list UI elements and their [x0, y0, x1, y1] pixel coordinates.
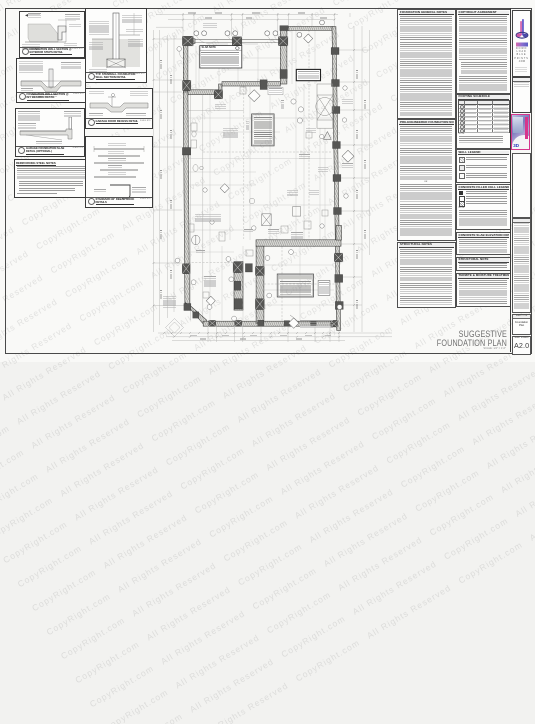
wall: interior stub [336, 226, 342, 241]
strip box: fine print [512, 218, 532, 313]
box: STRUCTURAL NOTE [456, 257, 511, 272]
fixtures along walls [189, 87, 328, 298]
note box NB1 [200, 46, 242, 68]
keynote circles [175, 47, 348, 321]
plan text blocks [201, 52, 239, 67]
box: WALL LEGEND [456, 149, 511, 183]
detail box D7: STANDARD 90 REBAR HOOK DETAILS [85, 136, 153, 208]
stair / fan feature right side [316, 84, 334, 128]
wall: top-left corner stub [183, 39, 195, 44]
wall: hall top (x222-280) [222, 82, 280, 86]
leader arrow T3 [290, 315, 299, 323]
detail box D2: TYP. STEMWALL FOUNDATION WALL SECTION DETAIL [85, 8, 147, 83]
box: COPYRIGHT AGREEMENT [456, 9, 511, 94]
white hatch X over large pads [182, 36, 343, 327]
box: PRE-ENGINEERED FOUNDATION NOTES [397, 119, 456, 241]
right dims [353, 26, 355, 332]
label box LB1 [296, 69, 320, 80]
title block strip [510, 8, 511, 352]
wall: diagonal bottom-left [185, 303, 207, 324]
interior faint dim chains [188, 30, 334, 320]
title area: SUGGESTIVE FOUNDATION PLAN [364, 330, 507, 347]
box: CONCRETE SLAB ELEVATION NOTES [456, 232, 511, 255]
strip box: sheet number [512, 336, 532, 355]
grid bubbles top [194, 20, 324, 37]
left dims [153, 30, 155, 332]
detail box D3: FOUNDATION WALL SECTION @ INT. BEARING DETAIL [16, 58, 86, 104]
wall: garage bottom [188, 90, 222, 95]
sheet border [5, 8, 533, 354]
wall: interior vertical O [234, 262, 243, 311]
label box LB2 [318, 281, 330, 296]
detail box D5: REINFORCING STEEL NOTES [14, 159, 89, 198]
note box NB3 [277, 274, 313, 297]
box: FOOTING SCHEDULE [456, 94, 511, 150]
strip box: revisions [512, 77, 532, 113]
strip box: color stamp [511, 114, 530, 151]
interior thin/dashed lines [188, 30, 336, 321]
detail box D6: GARAGE DOOR RECESS DETAIL [85, 88, 153, 129]
wall: interior garage top [256, 240, 341, 246]
box: TERMITE & MOISTURE TREATMENT [456, 273, 511, 307]
wall: step vertical (garage right) [280, 27, 287, 85]
bottom dims [158, 332, 392, 334]
leader arcs top [179, 36, 286, 61]
wall: top-right [287, 27, 335, 31]
strip box: logo [512, 10, 532, 77]
wall pads [182, 26, 343, 327]
label box PT [268, 88, 283, 95]
wall: interior vertical N [256, 246, 264, 323]
box: FOUNDATION GENERAL NOTES [397, 9, 456, 119]
wall: bottom [203, 321, 337, 326]
triangle symbol [324, 132, 332, 140]
walls [183, 27, 342, 331]
title bar [20, 47, 84, 48]
detail box D1: FOUNDATION WALL SECTION @ EXTERIOR STEPS DETAIL [19, 11, 85, 58]
keynote diamonds [206, 34, 354, 328]
note box NB2 [252, 114, 275, 146]
content layer [0, 0, 535, 362]
strip box: sheet title [512, 314, 532, 336]
dimension lines top [153, 13, 392, 342]
rotated pad outline bottom-left (A/C pad) [166, 319, 184, 337]
wall: right (slanted) [332, 27, 341, 331]
dim ticks top [153, 14, 356, 338]
detail box D4: GARAGE FOUNDATION SLAB DETAIL (OPTIONAL) [15, 108, 85, 157]
wall: left upper [183, 39, 188, 92]
wall: step at garage [219, 84, 222, 91]
appliance rects [192, 207, 301, 245]
box: CONCRETE FILLED CELL LEGEND [456, 184, 511, 230]
strip box: tall empty [512, 153, 532, 219]
box: STRUCTURAL NOTES [397, 242, 456, 309]
wall: left lower (slanted) [183, 92, 189, 306]
